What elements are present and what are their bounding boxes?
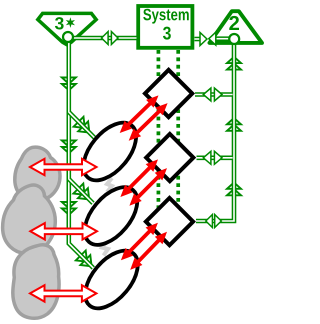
- chevrons up on S2 channel (bottom): [227, 183, 241, 189]
- chevrons down on 3* channel (lower): [62, 202, 76, 208]
- chevrons down on 3* channel (middle): [62, 141, 76, 147]
- System 3 box: [138, 6, 192, 48]
- chevrons on audit branch to OP3: [76, 251, 87, 262]
- red arrow pair OP1-M1 (upper): [125, 100, 153, 128]
- red arrow ENV1-OP1: [30, 159, 97, 175]
- operation ellipse OP2: [75, 178, 148, 255]
- chevrons on audit branch to OP2: [73, 184, 84, 195]
- node circle under 3*: [63, 32, 73, 42]
- operation ellipse OP3: [75, 241, 148, 318]
- red arrow pair OP2-M2 (lower): [135, 173, 162, 200]
- wire: 3* audit channel vertical with branch to OP3: [69, 42, 94, 268]
- bidirectional arrowheads on unit2-S2 line: [203, 151, 211, 164]
- triangle 3* (audit): [38, 13, 96, 44]
- label 2: [229, 16, 239, 30]
- chevrons on audit branch to OP1: [74, 117, 85, 128]
- environment blob ENV1 outline: [15, 147, 60, 201]
- environment blob ENV3 outline: [13, 245, 59, 318]
- chevrons up on S2 channel (top): [227, 57, 241, 63]
- star of 3*: [66, 17, 75, 28]
- red arrow ENV2-OP2: [30, 223, 97, 239]
- management diamond M1: [145, 70, 192, 117]
- facing arrowheads on System3-System2 link: [200, 33, 207, 46]
- wire: unit 1 management to S2 channel: [195, 92, 233, 97]
- node circle under triangle 2: [229, 34, 239, 44]
- wire: 3* to System 3 horizontal: [73, 36, 137, 41]
- dashed command channel right (from System 3): [176, 50, 180, 222]
- dashed command channel left (from System 3): [157, 50, 161, 222]
- label 3: [163, 27, 171, 40]
- gray squiggle link OP2-OP3: [102, 242, 108, 256]
- label 3 of 3*: [55, 17, 64, 29]
- red arrow ENV3-OP3: [30, 285, 96, 301]
- red arrow pair OP3-M3 (lower): [135, 237, 162, 265]
- wire: audit branch to OP1: [69, 112, 96, 139]
- wire: audit branch to OP2: [69, 179, 93, 203]
- management diamond M3: [146, 198, 193, 245]
- chevrons down on 3* channel (top): [62, 78, 76, 84]
- management diamond M2: [146, 134, 193, 181]
- gray squiggle link OP1-OP2: [107, 178, 112, 192]
- bidirectional arrowheads on unit3-S2 line: [206, 215, 213, 228]
- red arrow pair OP1-M1 (lower): [134, 108, 163, 136]
- environment blob ENV2 outline: [3, 185, 56, 253]
- wire: System 3 to System 2 link: [195, 37, 203, 42]
- environment blob ENV3 (fill): [13, 245, 59, 318]
- bidirectional arrowheads on unit1-S2 line: [203, 88, 211, 101]
- environment blob ENV2 (fill): [3, 185, 56, 253]
- triangle 2 (coordination): [210, 11, 263, 43]
- bidirectional arrowheads on 3*-System3 line: [102, 32, 109, 45]
- wire: unit 2 management to S2 channel: [197, 156, 233, 161]
- red arrow pair OP2-M2 (upper): [126, 165, 153, 192]
- operation ellipse OP1: [73, 113, 146, 190]
- chevrons up on S2 channel (middle): [227, 118, 241, 124]
- red arrow pair OP3-M3 (upper): [126, 228, 153, 255]
- wire: System 2 vertical channel down to unit 3 connector: [196, 43, 234, 222]
- environment blob ENV1 (fill): [15, 147, 60, 201]
- label System: [143, 9, 151, 21]
